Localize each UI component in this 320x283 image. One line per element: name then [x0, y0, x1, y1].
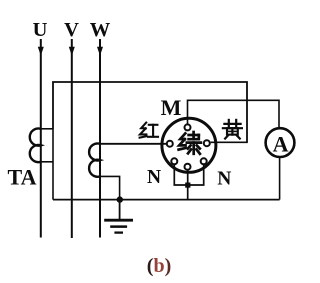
arrow V [69, 47, 75, 56]
wire ammeter bottom to bus [279, 158, 281, 200]
wire bottom bus [53, 199, 280, 201]
arrow W [97, 47, 103, 56]
wire M terminal to ammeter top [188, 100, 280, 127]
terminal yellow (right) [204, 140, 210, 146]
arrow U [38, 47, 44, 56]
terminal red (left) [167, 141, 173, 147]
wire W phase line [99, 39, 101, 238]
label green (lü) hanzi [179, 132, 201, 154]
wire top link from CT1 to yellow terminal [53, 82, 247, 142]
wire V phase line [71, 39, 73, 238]
wire CT1 top lead [41, 128, 53, 130]
transformer TA winding 1 (on U) [30, 128, 41, 162]
selector switch body [162, 118, 216, 172]
terminal M (top) [185, 124, 191, 130]
ground [104, 200, 133, 233]
svg-text:V: V [64, 19, 79, 41]
node bracket junction dot [185, 183, 190, 188]
wire N bracket [174, 165, 203, 185]
wire CT1 bottom lead [41, 161, 53, 163]
wire yellow terminal stub [211, 141, 248, 143]
terminal green (bottom-center) [185, 164, 191, 170]
wire CT2 bottom lead [100, 176, 120, 199]
svg-text:N: N [147, 167, 161, 188]
ammeter A1 body [266, 128, 295, 157]
svg-text:TA: TA [8, 164, 37, 189]
label yellow (huang) hanzi [223, 120, 242, 139]
wire U phase line [40, 39, 42, 238]
node junction dot on bus [117, 196, 123, 202]
svg-text:N: N [217, 169, 231, 190]
terminal N bottom-right [201, 158, 207, 164]
label red (hong) hanzi [140, 123, 158, 138]
wire left vertical CT1 to bottom bus [52, 129, 54, 200]
svg-text:M: M [161, 95, 182, 120]
transformer TA winding 2 (on W) [89, 143, 100, 176]
terminal N bottom-left [171, 158, 177, 164]
wire CT2 top lead to red terminal [100, 143, 166, 145]
svg-text:(b): (b) [147, 255, 171, 277]
svg-text:U: U [33, 19, 48, 41]
svg-text:W: W [90, 19, 111, 41]
svg-text:A: A [273, 131, 289, 156]
wire green terminal down to bus [187, 170, 189, 199]
